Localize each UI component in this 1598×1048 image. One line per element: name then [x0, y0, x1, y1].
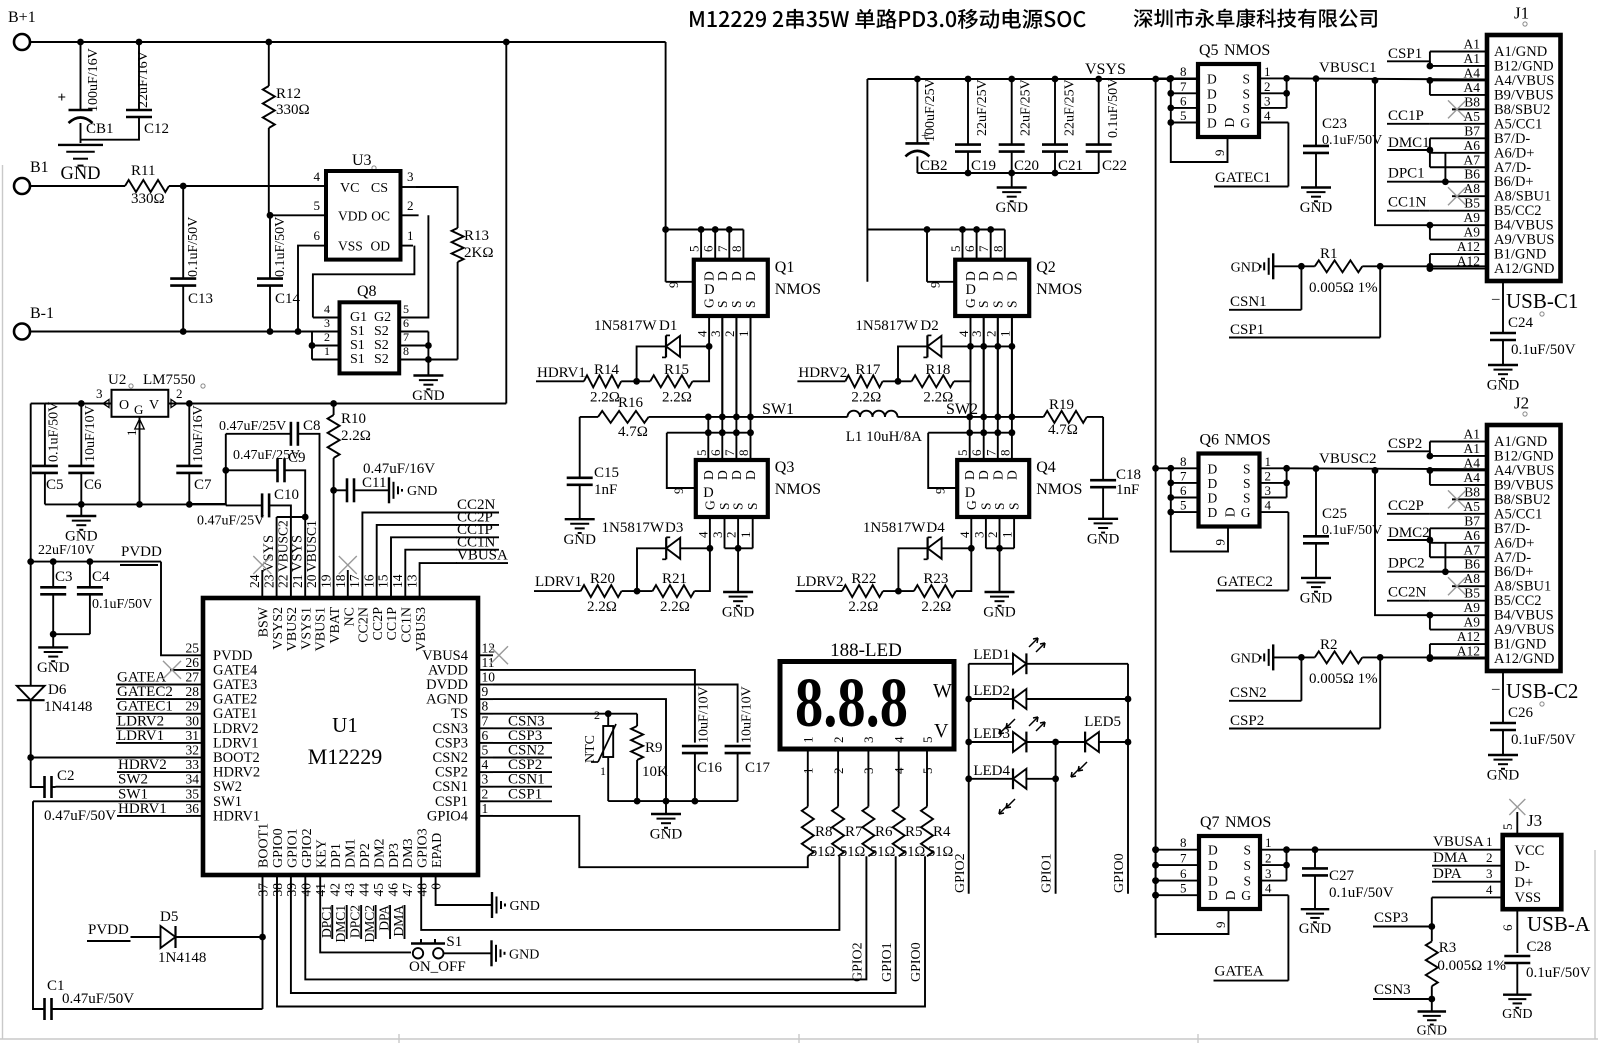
pin J2 A8/SBU1 — [1452, 585, 1487, 587]
svg-text:1: 1 — [736, 331, 751, 338]
svg-text:NMOS: NMOS — [775, 281, 821, 298]
svg-text:HDRV2: HDRV2 — [118, 757, 167, 773]
svg-text:R10: R10 — [341, 411, 366, 427]
node D5 junction — [259, 934, 266, 941]
svg-text:0.1uF/50V: 0.1uF/50V — [92, 597, 152, 612]
svg-text:D: D — [729, 271, 744, 281]
svg-text:VBUS2: VBUS2 — [285, 607, 300, 651]
svg-text:DM2: DM2 — [372, 838, 387, 868]
svg-text:1: 1 — [1265, 835, 1272, 850]
svg-text:4: 4 — [314, 169, 321, 184]
node C11 tap — [330, 487, 337, 494]
svg-text:S1: S1 — [446, 934, 462, 950]
wire VBAT vertical — [505, 42, 507, 404]
svg-text:LM7550: LM7550 — [143, 372, 196, 388]
pin Q7.2 — [1260, 864, 1287, 866]
pin Q7.1 — [1260, 849, 1287, 851]
svg-text:GND: GND — [1417, 1024, 1447, 1039]
wire R1 right — [1362, 265, 1487, 267]
svg-text:S: S — [1242, 86, 1250, 101]
svg-text:OC: OC — [371, 208, 390, 223]
svg-text:22uF/25V: 22uF/25V — [975, 79, 990, 136]
svg-text:0.1uF/50V: 0.1uF/50V — [47, 402, 62, 462]
svg-text:B7: B7 — [1464, 513, 1480, 528]
resistor R23 — [914, 585, 956, 597]
svg-text:4.7Ω: 4.7Ω — [618, 424, 648, 440]
wire U3 VSS down — [298, 246, 310, 332]
svg-text:NMOS: NMOS — [775, 481, 821, 498]
svg-text:10uF/10V: 10uF/10V — [697, 686, 712, 743]
svg-text:46: 46 — [385, 883, 400, 897]
svg-text:A12/GND: A12/GND — [1494, 261, 1554, 277]
svg-text:VBUSC1: VBUSC1 — [1319, 60, 1377, 76]
svg-text:Q7: Q7 — [1200, 814, 1220, 831]
pin U1.25 PVDD — [188, 654, 203, 656]
svg-text:R17: R17 — [855, 362, 881, 378]
svg-text:VDD: VDD — [338, 208, 367, 223]
svg-text:CSN2: CSN2 — [433, 750, 468, 766]
no-connect X J1 B8 — [1448, 100, 1466, 118]
svg-text:D5: D5 — [160, 909, 178, 925]
svg-text:D: D — [1004, 271, 1019, 281]
svg-text:CSN3: CSN3 — [433, 721, 468, 737]
capacitor C5 — [44, 404, 46, 466]
pin Q5.6 — [1171, 107, 1198, 109]
svg-text:D: D — [1208, 491, 1218, 506]
pins Q3 top 5-8 — [707, 417, 709, 460]
svg-text:G: G — [1241, 888, 1251, 903]
svg-text:G: G — [1240, 116, 1250, 131]
svg-text:CSN1: CSN1 — [508, 772, 545, 788]
svg-text:2: 2 — [594, 708, 600, 722]
svg-text:SW1: SW1 — [762, 401, 794, 418]
svg-text:CSN3: CSN3 — [1374, 982, 1411, 998]
svg-text:188-LED: 188-LED — [830, 640, 902, 661]
svg-text:B8: B8 — [1464, 94, 1480, 109]
svg-text:3: 3 — [1265, 866, 1272, 881]
svg-text:2.2Ω: 2.2Ω — [590, 390, 620, 406]
svg-text:C7: C7 — [194, 477, 212, 493]
svg-text:A9: A9 — [1464, 600, 1481, 615]
svg-text:CSN2: CSN2 — [508, 743, 545, 759]
svg-text:D4: D4 — [926, 520, 945, 536]
pin U2.3 — [81, 403, 112, 405]
svg-text:GPIO1: GPIO1 — [286, 828, 301, 868]
svg-text:C25: C25 — [1322, 506, 1347, 522]
svg-text:BOOT2: BOOT2 — [213, 750, 260, 766]
svg-text:A9: A9 — [1464, 225, 1481, 240]
wire C3C4 bus — [53, 633, 90, 635]
svg-text:9: 9 — [666, 282, 681, 289]
svg-text:DM1: DM1 — [343, 838, 358, 868]
svg-text:LED2: LED2 — [973, 683, 1010, 699]
svg-text:C21: C21 — [1058, 158, 1083, 174]
resistor R21 — [653, 585, 695, 597]
svg-text:36: 36 — [186, 801, 200, 816]
svg-text:LDRV2: LDRV2 — [213, 721, 259, 737]
wire B1 to R11 — [30, 185, 125, 187]
svg-text:CB1: CB1 — [86, 121, 114, 137]
svg-text:2: 2 — [983, 331, 998, 338]
wire U3 OC to Q8 pin5 — [416, 215, 428, 317]
node C6 top — [78, 400, 85, 407]
wire VSYS drop to Q2 — [866, 79, 868, 282]
svg-text:D6: D6 — [48, 682, 67, 698]
svg-text:2: 2 — [985, 532, 1000, 539]
svg-text:2.2Ω: 2.2Ω — [341, 428, 371, 444]
svg-text:6: 6 — [701, 245, 716, 252]
wire VSYS2 pin23 — [276, 517, 278, 598]
pin U1.10 DVDD — [478, 684, 493, 686]
svg-text:VBUS4: VBUS4 — [422, 648, 469, 664]
svg-text:A8: A8 — [1464, 181, 1481, 196]
svg-text:C18: C18 — [1116, 467, 1141, 483]
svg-text:3: 3 — [861, 768, 876, 775]
wire B-1 rail — [30, 331, 312, 333]
wire PVDD rail — [30, 404, 32, 562]
svg-text:CSP2: CSP2 — [1388, 436, 1422, 452]
svg-text:HDRV1: HDRV1 — [118, 801, 167, 817]
svg-text:S: S — [1243, 461, 1251, 476]
svg-text:DMC1: DMC1 — [1388, 135, 1430, 151]
svg-text:C9: C9 — [288, 450, 306, 466]
svg-text:1: 1 — [600, 764, 606, 778]
svg-text:GATEC2: GATEC2 — [117, 684, 173, 700]
svg-text:NMOS: NMOS — [1225, 432, 1271, 449]
capacitor C27 — [1314, 850, 1316, 869]
svg-text:D: D — [990, 470, 1005, 480]
svg-text:DPC2: DPC2 — [1388, 556, 1425, 572]
pin U3.5 — [310, 214, 326, 216]
wire B+1 drop to Q1 — [665, 42, 667, 230]
wire GPIO3 net — [421, 856, 839, 930]
resistor R15 — [650, 375, 692, 387]
wire DPC2 net — [1444, 543, 1446, 572]
svg-text:A4: A4 — [1464, 65, 1481, 80]
svg-text:D: D — [729, 470, 744, 480]
wire GATEC1 — [1287, 123, 1289, 187]
svg-text:R11: R11 — [131, 163, 155, 179]
svg-text:OD: OD — [371, 239, 391, 254]
pin Q5.5 — [1171, 122, 1198, 124]
node CB1 tap — [77, 39, 84, 46]
node C13 tap — [180, 183, 187, 190]
pin U2.1 — [139, 417, 141, 505]
svg-text:KEY: KEY — [315, 839, 330, 868]
node VDD junction — [267, 212, 274, 219]
svg-text:DP1: DP1 — [329, 843, 344, 868]
svg-text:HDRV2: HDRV2 — [213, 765, 260, 781]
drain bus Q7 — [1155, 850, 1157, 896]
wire S1 to gnd — [444, 952, 492, 954]
node C23 tap — [1313, 75, 1320, 82]
wire gnd bus — [45, 503, 226, 505]
svg-text:25: 25 — [186, 640, 200, 655]
node R12 tap — [265, 39, 272, 46]
pin Q5.3 — [1259, 107, 1287, 109]
svg-text:VCC: VCC — [1515, 843, 1545, 859]
svg-text:0.47uF/16V: 0.47uF/16V — [363, 461, 435, 477]
svg-text:GATE3: GATE3 — [213, 677, 257, 693]
pin U1.31 LDRV1 — [188, 742, 203, 744]
svg-text:1: 1 — [801, 768, 816, 775]
svg-text:7: 7 — [403, 330, 409, 344]
pin U1.36 HDRV1 — [188, 815, 203, 817]
svg-text:VBUSA: VBUSA — [457, 548, 508, 564]
svg-text:0.47uF/25V: 0.47uF/25V — [197, 514, 264, 529]
resistor R22 — [842, 585, 883, 597]
svg-text:A6: A6 — [1464, 138, 1481, 153]
svg-text:A1: A1 — [1464, 427, 1481, 442]
svg-text:DP3: DP3 — [387, 843, 402, 868]
ground C25 — [1301, 577, 1331, 579]
transistor Q3 — [696, 460, 768, 517]
capacitor C3 — [52, 562, 54, 588]
svg-text:4.7Ω: 4.7Ω — [1048, 422, 1078, 438]
svg-text:GPIO2: GPIO2 — [300, 828, 315, 868]
svg-text:S1: S1 — [350, 338, 365, 353]
pin J2 B6/D+ — [1430, 571, 1487, 573]
pin J1 B12/GND — [1430, 65, 1487, 67]
svg-text:4: 4 — [1264, 108, 1271, 123]
pin U3.3 — [401, 186, 417, 188]
svg-text:EPAD: EPAD — [430, 833, 445, 868]
svg-text:2.2Ω: 2.2Ω — [660, 599, 690, 615]
ground CB1 — [58, 144, 103, 146]
svg-text:GND: GND — [1231, 261, 1261, 276]
pin Q7.5 — [1156, 894, 1199, 896]
svg-text:0.1uF/50V: 0.1uF/50V — [1526, 965, 1591, 981]
svg-text:S2: S2 — [374, 338, 389, 353]
svg-text:O: O — [119, 398, 129, 413]
connector label USB-C2 — [1502, 671, 1504, 723]
svg-text:1: 1 — [997, 331, 1012, 338]
svg-text:D1: D1 — [659, 318, 677, 334]
svg-text:5: 5 — [482, 743, 489, 758]
svg-text:R2: R2 — [1320, 637, 1338, 653]
diode D6 1N4148 — [30, 562, 32, 686]
wire CSP2 jog — [1429, 451, 1431, 456]
transistor Q1 — [694, 260, 768, 316]
svg-text:CSP2: CSP2 — [435, 765, 468, 781]
resistor R20 — [581, 585, 622, 597]
connector label USB-C1 — [1502, 281, 1504, 333]
pin J1 B4/VBUS — [1430, 224, 1487, 226]
node VBAT drop — [503, 39, 510, 46]
svg-text:VBUSA: VBUSA — [1433, 834, 1484, 850]
svg-text:CSP1: CSP1 — [435, 794, 468, 810]
svg-text:D: D — [743, 271, 758, 281]
svg-text:1N5817W: 1N5817W — [602, 520, 665, 536]
svg-text:R15: R15 — [664, 362, 689, 378]
capacitor C15 — [567, 476, 593, 479]
svg-text:0.47uF/50V: 0.47uF/50V — [44, 808, 116, 824]
svg-text:10: 10 — [482, 670, 496, 685]
svg-text:7: 7 — [983, 449, 998, 456]
svg-text:9: 9 — [671, 488, 686, 495]
pins Q2 top 5-8 — [962, 230, 964, 260]
wire cap bank bus — [917, 172, 1098, 174]
capacitor C1 — [33, 801, 45, 1009]
capacitor C11 — [334, 489, 347, 491]
svg-text:C3: C3 — [55, 569, 73, 585]
pin Q8.1 — [312, 359, 340, 361]
drain bus Q4 — [928, 432, 1012, 434]
svg-text:GND: GND — [412, 388, 445, 404]
pin J1 A9/VBUS — [1430, 239, 1487, 241]
node C14 bottom — [267, 328, 274, 335]
svg-text:B8: B8 — [1464, 484, 1480, 499]
svg-text:3: 3 — [407, 169, 414, 184]
svg-text:9: 9 — [932, 488, 947, 495]
svg-text:4: 4 — [1486, 882, 1493, 897]
pin Q8.2 — [312, 345, 340, 347]
svg-text:R5: R5 — [905, 824, 923, 840]
pin J2 A5/CC1 — [1430, 513, 1487, 515]
resistor R17 — [845, 375, 882, 387]
pin Q6.5 — [1171, 511, 1199, 513]
svg-text:1: 1 — [1265, 454, 1272, 469]
svg-text:NMOS: NMOS — [1036, 281, 1082, 298]
svg-text:8: 8 — [403, 344, 409, 358]
ground C28 — [1503, 994, 1532, 996]
pin U3.4 — [310, 185, 326, 187]
pin Q6.4 — [1260, 511, 1289, 513]
svg-text:6: 6 — [482, 728, 489, 743]
wire CC1P net — [391, 537, 457, 598]
svg-text:J3: J3 — [1527, 811, 1542, 830]
svg-text:A12: A12 — [1457, 629, 1480, 644]
svg-text:B5: B5 — [1464, 586, 1480, 601]
svg-text:S: S — [1004, 300, 1019, 308]
svg-text:R13: R13 — [464, 228, 489, 244]
svg-text:7: 7 — [976, 245, 991, 252]
svg-text:1: 1 — [324, 344, 330, 358]
svg-text:B6: B6 — [1464, 167, 1480, 182]
svg-text:10uF/16V: 10uF/16V — [191, 405, 206, 462]
svg-text:43: 43 — [342, 883, 357, 897]
pin Q7.9 — [1156, 895, 1229, 934]
svg-text:15: 15 — [376, 574, 391, 588]
svg-text:D: D — [1208, 476, 1218, 491]
svg-text:32: 32 — [186, 743, 200, 758]
svg-text:0.005Ω 1%: 0.005Ω 1% — [1437, 958, 1506, 974]
svg-text:VBUSC1: VBUSC1 — [304, 520, 319, 572]
svg-text:S: S — [992, 502, 1007, 510]
svg-text:5: 5 — [1180, 881, 1187, 896]
node C12 tap — [136, 39, 143, 46]
svg-text:D: D — [1222, 118, 1237, 128]
pin Q8.8 — [399, 359, 428, 361]
svg-text:4: 4 — [1265, 881, 1272, 896]
svg-text:5: 5 — [403, 302, 409, 316]
svg-text:C14: C14 — [275, 291, 301, 307]
svg-text:A5: A5 — [1464, 499, 1481, 514]
svg-text:1N4148: 1N4148 — [158, 950, 206, 966]
wire SW2 node — [897, 416, 1043, 418]
svg-text:GATEC1: GATEC1 — [1215, 170, 1271, 186]
svg-text:C28: C28 — [1527, 939, 1552, 955]
pin J1 B8/SBU2 — [1452, 108, 1487, 110]
no-connect X J1 A8 — [1448, 187, 1466, 205]
pin U1.5 CSN2 — [478, 757, 493, 759]
svg-text:2: 2 — [1486, 850, 1493, 865]
svg-text:GATEA: GATEA — [1215, 964, 1264, 980]
resistor R11 — [125, 180, 169, 192]
wire VBUSC2 — [1287, 467, 1487, 470]
svg-text:SW2: SW2 — [213, 779, 242, 795]
svg-text:2.2Ω: 2.2Ω — [662, 390, 692, 406]
node vsys tap — [1008, 76, 1015, 83]
wire GATEA — [1287, 895, 1289, 980]
svg-text:22uF/16V: 22uF/16V — [136, 51, 151, 108]
svg-text:1nF: 1nF — [1116, 482, 1139, 498]
wire GPIO0 led bus — [1127, 664, 1129, 894]
svg-text:6: 6 — [962, 245, 977, 252]
wire VSYS rail — [867, 78, 1198, 80]
ground analog — [665, 801, 667, 814]
pin J1 B9/VBUS — [1430, 94, 1487, 96]
pin J2 B8/SBU2 — [1452, 498, 1487, 500]
svg-text:R1: R1 — [1320, 246, 1338, 262]
svg-text:4: 4 — [1265, 498, 1272, 513]
resistor R8 — [802, 807, 814, 857]
capacitor CB2 — [916, 79, 918, 143]
ground EPAD tag — [491, 892, 493, 918]
svg-text:GPIO2: GPIO2 — [851, 942, 866, 982]
svg-text:DM3: DM3 — [401, 838, 416, 868]
svg-text:D: D — [704, 282, 714, 298]
svg-text:8: 8 — [736, 450, 751, 457]
svg-text:C8: C8 — [303, 418, 321, 434]
svg-text:A12: A12 — [1457, 239, 1480, 254]
node C3 tap — [50, 558, 57, 565]
resistor R13 — [452, 228, 464, 262]
svg-text:D: D — [1207, 116, 1217, 131]
svg-text:CSP2: CSP2 — [508, 757, 542, 773]
capacitor C18 — [1102, 417, 1104, 480]
svg-text:GPIO0: GPIO0 — [1112, 853, 1127, 893]
svg-text:CSN2: CSN2 — [1230, 685, 1267, 701]
svg-text:0.1uF/50V: 0.1uF/50V — [1106, 78, 1121, 138]
svg-text:9: 9 — [1212, 150, 1227, 157]
wire VBUSA row — [1287, 849, 1503, 851]
pin Q8.4 — [313, 317, 340, 319]
svg-text:R12: R12 — [276, 86, 301, 102]
svg-text:3: 3 — [324, 316, 330, 330]
svg-text:9: 9 — [927, 282, 942, 289]
svg-text:CS: CS — [371, 181, 388, 196]
wire vbus drop — [1375, 470, 1430, 615]
IC U1 M12229 — [203, 598, 478, 875]
svg-text:SW2: SW2 — [118, 772, 148, 788]
svg-text:7: 7 — [1180, 851, 1187, 866]
svg-text:CC1N: CC1N — [400, 607, 415, 643]
pin J3.4 — [1432, 896, 1503, 898]
resistor R2 — [1315, 651, 1363, 663]
wire D2 gate row ties — [971, 345, 1012, 347]
drain bus Q5 — [1170, 78, 1172, 122]
svg-text:A1: A1 — [1464, 441, 1481, 456]
source bus Q4 — [986, 547, 1014, 549]
svg-text:V: V — [934, 720, 949, 742]
pin J2 A1/GND — [1430, 441, 1487, 443]
svg-text:0.47uF/25V: 0.47uF/25V — [219, 419, 286, 434]
no-connect X pin24 — [253, 556, 271, 574]
pin Q6.1 — [1260, 467, 1287, 469]
svg-text:2: 2 — [324, 330, 330, 344]
svg-text:D: D — [701, 470, 716, 480]
